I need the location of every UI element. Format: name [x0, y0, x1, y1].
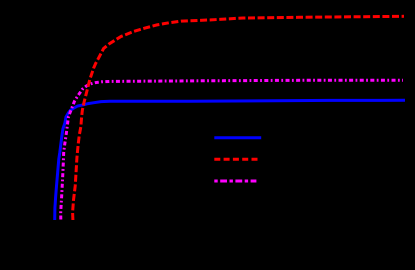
magenta dash-dot curve [61, 80, 403, 219]
legend blue solid sample [214, 136, 261, 139]
legend magenta dash-dot sample [214, 180, 256, 183]
blue solid curve [55, 100, 405, 220]
legend red dashed sample [214, 158, 258, 161]
red dashed curve [73, 16, 404, 220]
